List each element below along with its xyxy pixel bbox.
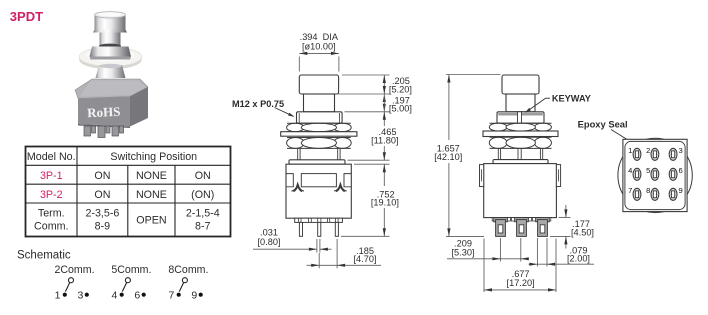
- svg-text:Model No.: Model No.: [27, 151, 76, 163]
- svg-text:9: 9: [191, 289, 197, 301]
- front view: latch spring right: [335, 183, 347, 191]
- svg-text:[4.70]: [4.70]: [354, 254, 377, 264]
- svg-text:9: 9: [679, 186, 683, 195]
- front view: pin 3: [335, 222, 338, 236]
- svg-text:[4.50]: [4.50]: [571, 227, 594, 237]
- front view: threaded bushing M12: [297, 112, 343, 123]
- svg-text:(ON): (ON): [191, 189, 214, 201]
- side view: solder lug 3: [536, 218, 550, 237]
- svg-text:.031: .031: [260, 228, 278, 238]
- front view: body: [286, 164, 351, 218]
- bottom view: pin 7: [628, 186, 641, 200]
- svg-text:5Comm.: 5Comm.: [111, 264, 151, 276]
- svg-text:[0.80]: [0.80]: [258, 237, 281, 247]
- side view: body flange: [493, 160, 548, 164]
- svg-text:7: 7: [628, 186, 632, 195]
- front view: body flange: [289, 160, 345, 164]
- svg-text:[42.10]: [42.10]: [434, 152, 462, 162]
- dim .209 [5.30]: [447, 238, 529, 262]
- dim .752 [19.10]: [371, 164, 399, 236]
- bottom view: pin 2: [646, 146, 659, 160]
- svg-text:Term.: Term.: [38, 208, 65, 220]
- svg-text:[19.10]: [19.10]: [371, 198, 399, 208]
- photo: white plastic washer: [79, 47, 142, 69]
- side view: washer: [483, 131, 558, 137]
- photo: hex nut: [90, 47, 132, 60]
- svg-text:ON: ON: [195, 170, 211, 182]
- svg-text:[ø10.00]: [ø10.00]: [302, 42, 336, 52]
- front view: actuator cap: [299, 75, 338, 94]
- bottom view: pin 8: [646, 186, 659, 200]
- svg-text:[5.20]: [5.20]: [389, 84, 412, 94]
- side view: hex nut lower: [489, 137, 551, 148]
- svg-text:[5.30]: [5.30]: [452, 247, 475, 257]
- front view: pin 1: [299, 222, 302, 236]
- side view: body: [484, 164, 557, 218]
- bottom view: pin 1: [628, 146, 641, 160]
- side view: solder lug 2: [515, 218, 529, 237]
- photo: body top face: [75, 79, 148, 99]
- svg-text:Comm.: Comm.: [34, 221, 68, 233]
- svg-text:M12 x P0.75: M12 x P0.75: [232, 99, 284, 109]
- svg-text:2-3,5-6: 2-3,5-6: [85, 208, 119, 220]
- svg-text:3P-1: 3P-1: [40, 170, 63, 182]
- dim .677 [17.20]: [484, 239, 556, 293]
- photo: switch neck: [99, 33, 121, 49]
- svg-text:.394 DIA: .394 DIA: [300, 32, 339, 42]
- svg-text:Schematic: Schematic: [17, 250, 71, 262]
- side view: hex nut upper: [489, 123, 551, 131]
- svg-text:NONE: NONE: [136, 170, 167, 182]
- svg-text:ON: ON: [94, 189, 110, 201]
- svg-text:ON: ON: [94, 170, 110, 182]
- side view: solder lug 1: [494, 218, 508, 237]
- svg-text:1: 1: [55, 289, 61, 301]
- svg-text:NONE: NONE: [136, 189, 167, 201]
- front view: hex nut upper: [287, 123, 352, 132]
- front view: body centre recess: [301, 174, 336, 187]
- side view: terminal base notches: [492, 218, 551, 221]
- front view: body side recess right: [344, 174, 351, 187]
- photo: body bottom edge: [78, 124, 130, 128]
- dim chain right: extension lines: [338, 75, 390, 236]
- schematic pole 2Comm.: [55, 264, 95, 301]
- dim .177 [4.50]: [550, 205, 594, 249]
- label KEYWAY: [525, 93, 591, 113]
- photo: body top bevel highlight: [80, 81, 146, 97]
- front view: pin 2: [318, 222, 321, 236]
- photo: solder pins: [84, 126, 124, 138]
- photo: switch cap: [93, 12, 127, 33]
- label M12 x P0.75: [232, 99, 295, 117]
- svg-text:OPEN: OPEN: [136, 215, 166, 227]
- dim .079 [2.00]: [529, 238, 595, 267]
- svg-text:8Comm.: 8Comm.: [168, 264, 208, 276]
- bottom view: pin 4: [628, 166, 641, 180]
- svg-text:2Comm.: 2Comm.: [55, 264, 95, 276]
- side view: actuator cap: [502, 75, 539, 94]
- table: switching position: [26, 147, 231, 237]
- side view: mounting ear right: [556, 165, 560, 187]
- svg-text:RoHS: RoHS: [87, 104, 121, 120]
- svg-text:3: 3: [679, 146, 683, 155]
- dim .394 DIA: [299, 32, 339, 72]
- svg-text:4: 4: [628, 166, 632, 175]
- svg-text:8-7: 8-7: [195, 221, 211, 233]
- svg-text:2: 2: [646, 146, 650, 155]
- side view: mounting ear left: [480, 165, 484, 187]
- svg-text:Switching Position: Switching Position: [110, 151, 197, 163]
- svg-text:6: 6: [679, 166, 683, 175]
- svg-text:2-1,5-4: 2-1,5-4: [186, 208, 220, 220]
- photo: bushing base: [96, 64, 126, 78]
- svg-text:[2.00]: [2.00]: [567, 254, 590, 264]
- dim .185 [4.70]: [307, 239, 382, 268]
- bottom view: pin 5: [646, 166, 659, 180]
- front view: washer: [281, 132, 357, 137]
- front view: actuator stem: [304, 94, 335, 112]
- label Epoxy Seal: [578, 118, 637, 145]
- svg-text:3P-2: 3P-2: [40, 189, 63, 201]
- svg-text:[5.00]: [5.00]: [389, 104, 412, 114]
- side view: actuator stem: [506, 94, 535, 112]
- front view: body side recess left: [286, 174, 293, 187]
- front view: threaded shaft below nuts: [298, 148, 340, 160]
- svg-text:8-9: 8-9: [95, 221, 111, 233]
- dim .465 [11.80]: [371, 112, 398, 160]
- bottom view: epoxy seal area: [625, 141, 685, 209]
- front view: terminal strip: [295, 218, 343, 222]
- svg-text:7: 7: [169, 289, 175, 301]
- dim .205 [5.20]: [383, 75, 412, 94]
- bottom view: pin 3: [669, 146, 683, 160]
- dim .031 [0.80]: [253, 228, 332, 253]
- photo: body right face: [130, 87, 148, 127]
- svg-text:[17.20]: [17.20]: [507, 278, 535, 288]
- svg-text:3PDT: 3PDT: [10, 9, 43, 24]
- svg-text:6: 6: [134, 289, 140, 301]
- svg-text:5: 5: [646, 166, 650, 175]
- photo: body front face: [78, 97, 130, 127]
- dim 1.657 [42.10]: [434, 75, 500, 237]
- schematic pole 8Comm.: [168, 264, 208, 301]
- svg-text:KEYWAY: KEYWAY: [552, 93, 591, 103]
- bottom view: body outline: [623, 139, 687, 211]
- svg-text:1: 1: [628, 146, 632, 155]
- svg-text:8: 8: [646, 186, 650, 195]
- schematic pole 5Comm.: [111, 264, 151, 301]
- svg-text:Epoxy Seal: Epoxy Seal: [578, 118, 628, 129]
- svg-text:3: 3: [78, 289, 84, 301]
- dim .197 [5.00]: [383, 94, 412, 114]
- side view: shaft with keyway: [498, 148, 542, 159]
- svg-text:[11.80]: [11.80]: [371, 136, 398, 146]
- bottom view: pin 9: [669, 186, 683, 200]
- bottom view: mounting circle: [618, 138, 692, 212]
- svg-text:4: 4: [112, 289, 118, 301]
- bottom view: pin 6: [669, 166, 683, 180]
- front view: hex nut lower: [287, 137, 352, 148]
- side view: bushing with keyway: [497, 112, 544, 123]
- front view: latch spring left: [292, 183, 304, 191]
